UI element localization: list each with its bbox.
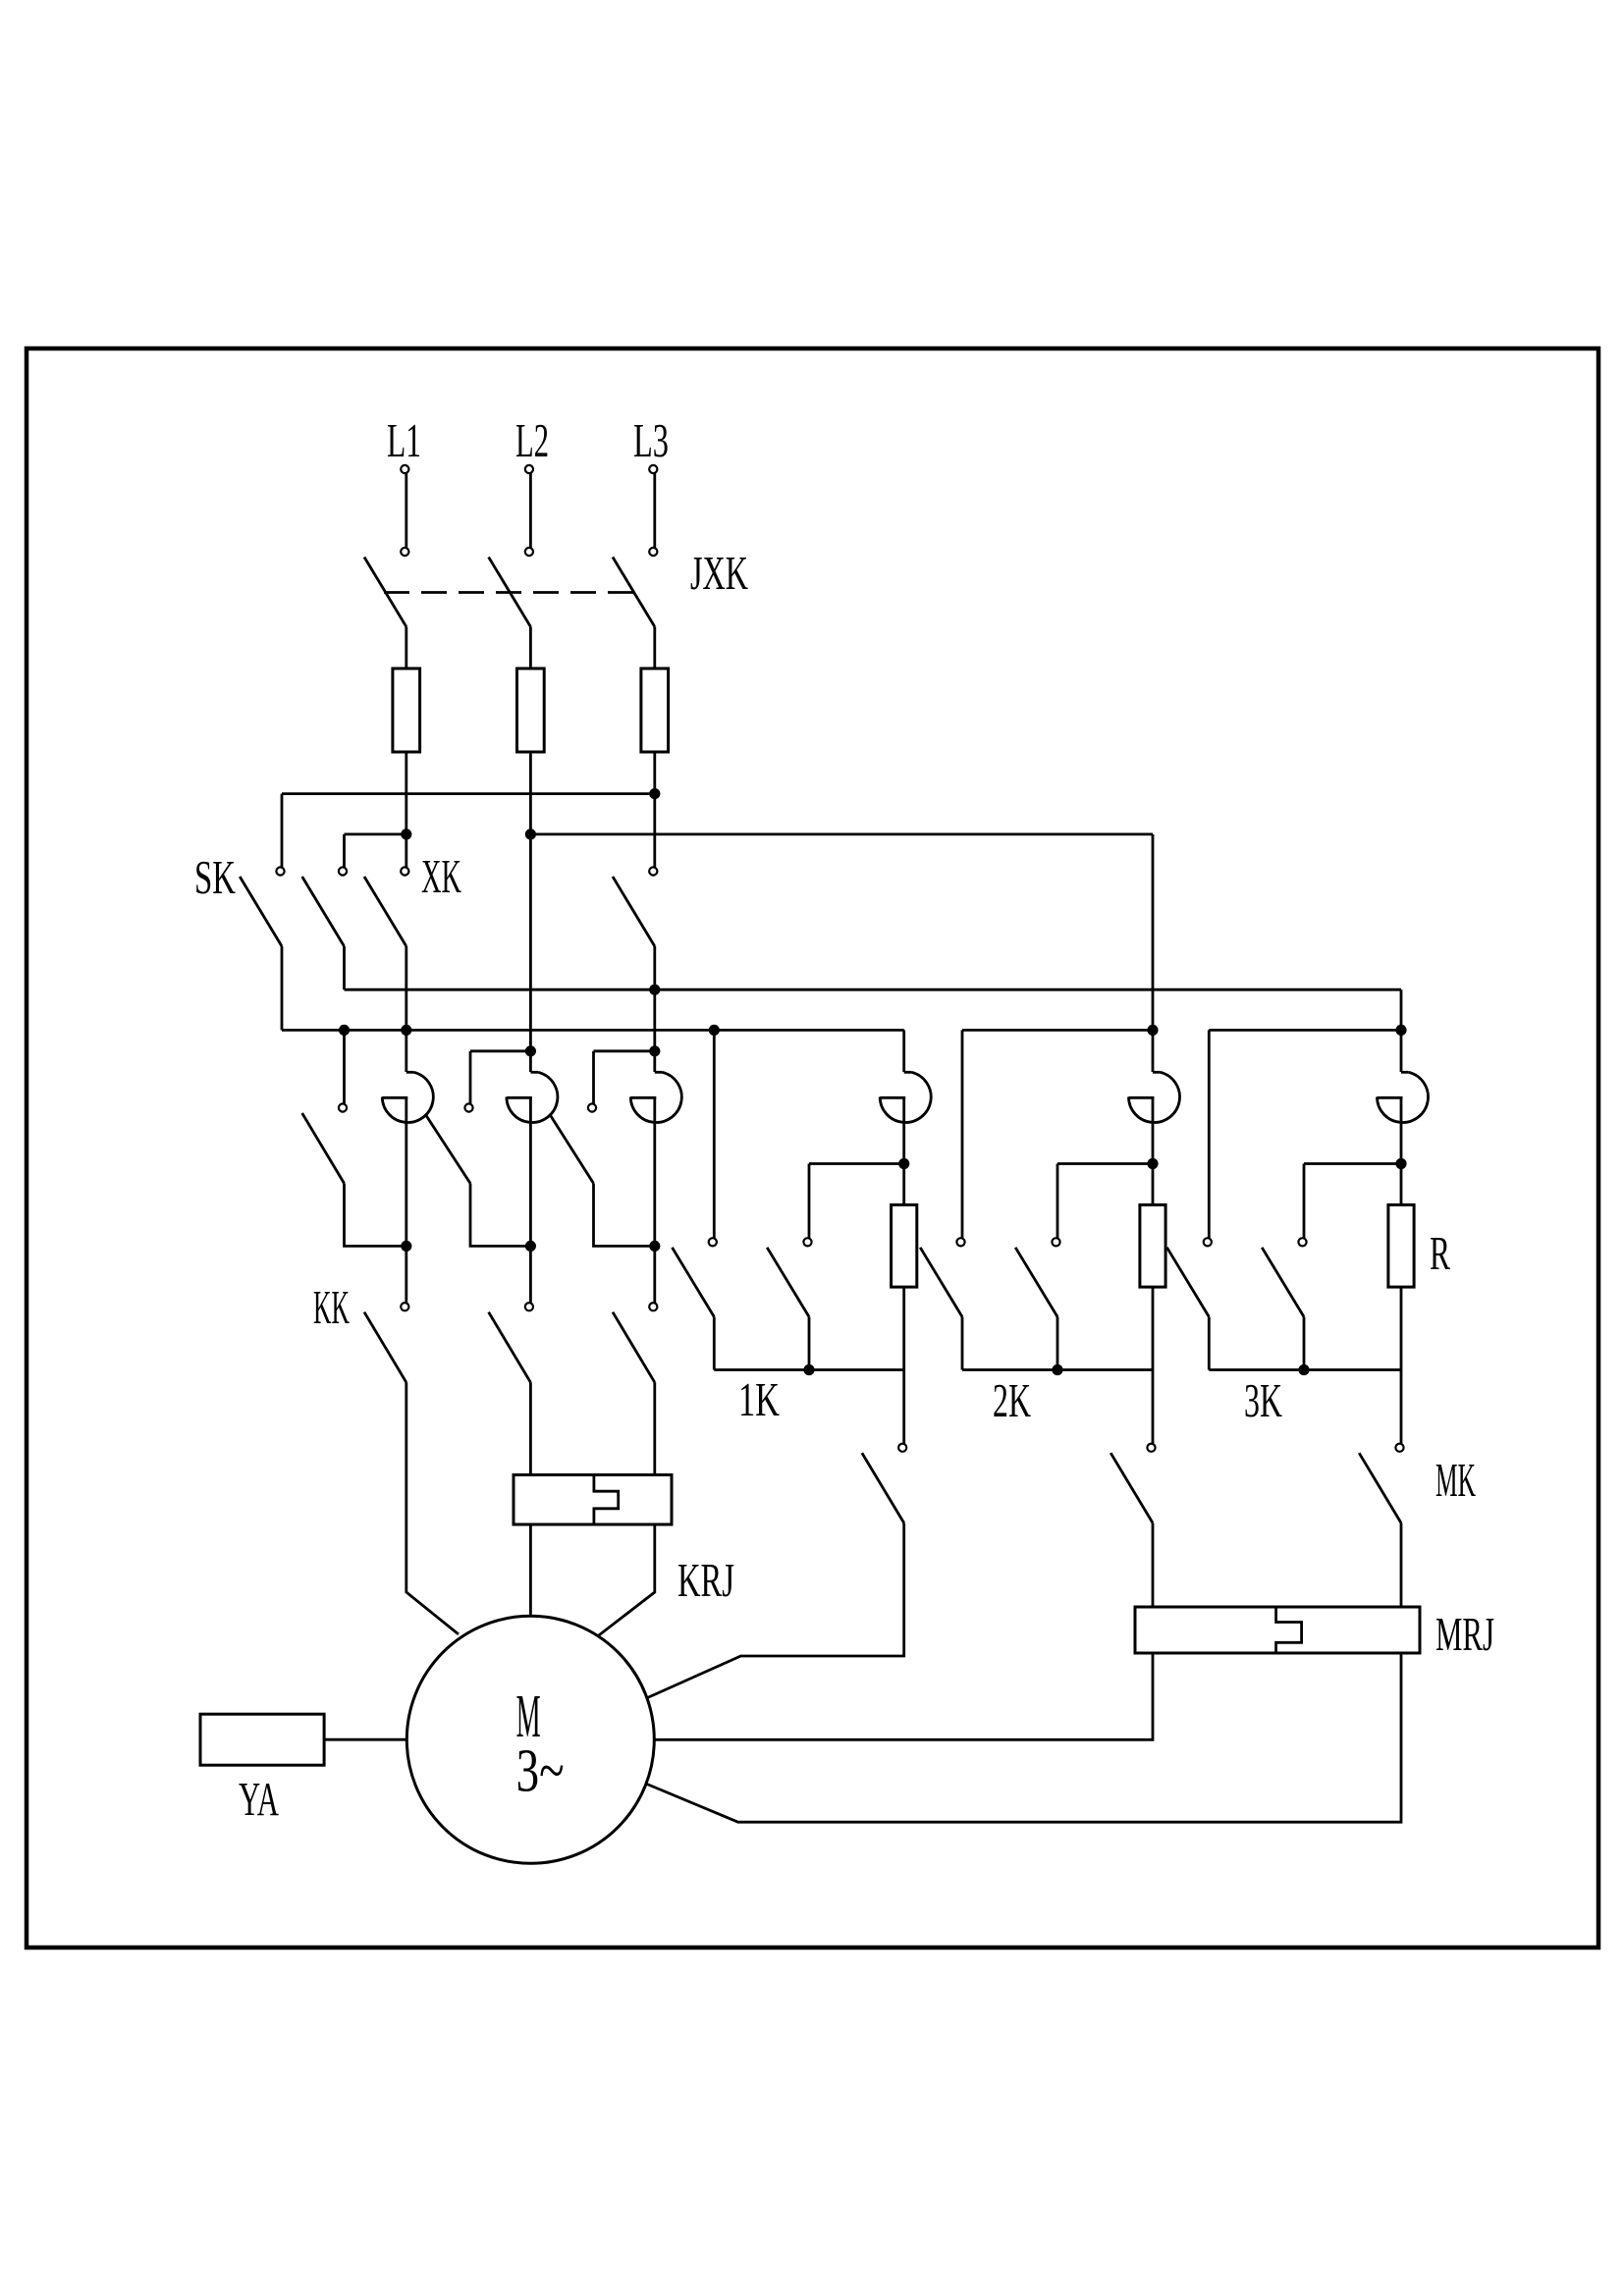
thermal relay heater KRJ bbox=[514, 1475, 672, 1525]
bus SK1 output (y=1049.4) bbox=[282, 1029, 904, 1032]
terminal L3 bbox=[649, 465, 657, 473]
fuse FU1 bbox=[393, 668, 420, 752]
wire winding5 tap to 2K middle bbox=[1057, 1162, 1153, 1165]
tap switch 1 blade bbox=[302, 1113, 345, 1184]
svg-text:1K: 1K bbox=[738, 1372, 780, 1426]
node 1K-bar bbox=[803, 1364, 814, 1375]
switch MK pole 1 blade bbox=[862, 1453, 904, 1522]
wire L2 to JXK bbox=[529, 473, 532, 548]
switch MK pole 3 contact bbox=[1395, 1444, 1403, 1452]
wire winding5 feed bbox=[1152, 834, 1155, 1072]
svg-text:YA: YA bbox=[239, 1772, 279, 1826]
wire SK1 top drop bbox=[281, 794, 284, 868]
wire 1K bottom bar bbox=[714, 1368, 903, 1371]
wire resistor4 down bbox=[902, 1287, 905, 1443]
wire tap switch 1 feed bbox=[343, 1030, 346, 1103]
node link1070-L2 bbox=[525, 1045, 536, 1056]
wire 2K left bottom bbox=[961, 1317, 964, 1370]
switch 2K middle blade bbox=[1015, 1248, 1057, 1317]
wire tap switch 2 feed bbox=[469, 1051, 472, 1104]
switch 3K left contact bbox=[1204, 1238, 1212, 1246]
wire KK3 to KRJ bbox=[653, 1382, 656, 1474]
switch XK pole 1 blade bbox=[364, 877, 406, 946]
wire 3K left pole feed bbox=[1208, 1030, 1211, 1238]
wire winding5 center bbox=[1152, 1097, 1155, 1204]
node tap2-L2 bbox=[525, 1241, 536, 1252]
svg-text:XK: XK bbox=[421, 849, 461, 903]
wire KK2 to KRJ bbox=[529, 1382, 532, 1474]
brake YA box bbox=[200, 1714, 324, 1765]
wire resistor R down bbox=[1400, 1287, 1403, 1443]
wire winding2 center bbox=[529, 1097, 532, 1303]
svg-text:3~: 3~ bbox=[516, 1737, 565, 1804]
tap switch 3 contact bbox=[588, 1103, 596, 1111]
winding W2 (autotransformer phase 2) bbox=[530, 1071, 538, 1074]
link L3 to tap switch 3 (y=1070.8) bbox=[594, 1049, 655, 1052]
svg-text:R: R bbox=[1430, 1226, 1450, 1280]
switch KK pole 3 blade bbox=[613, 1312, 655, 1383]
node 3Kfeed-w6 bbox=[1395, 1025, 1406, 1036]
wire 1K left bottom bbox=[713, 1317, 716, 1370]
link L2 to tap switch 2 (y=1070.8) bbox=[470, 1049, 530, 1052]
node tap1-L1 bbox=[401, 1241, 411, 1252]
wire winding3 center bbox=[653, 1097, 656, 1303]
wire fuse3 down L3 column bbox=[653, 752, 656, 867]
switch 1K left blade bbox=[673, 1248, 715, 1317]
wire SK2 top drop bbox=[343, 834, 346, 868]
switch JXK pole 2 contact bbox=[525, 548, 533, 556]
switch SK pole 2 blade bbox=[302, 877, 345, 946]
node link1070-L3 bbox=[649, 1045, 660, 1056]
wire 3K middle bottom bbox=[1303, 1317, 1306, 1370]
switch MK pole 2 blade bbox=[1110, 1453, 1153, 1522]
svg-text:2K: 2K bbox=[993, 1373, 1031, 1427]
wire XK1 bottom bbox=[405, 946, 407, 1072]
switch XK pole 2 contact bbox=[649, 867, 657, 875]
switch SK pole 1 blade bbox=[240, 877, 282, 946]
motor M circle bbox=[406, 1616, 654, 1863]
wire MRJ to motor bottom-right bbox=[647, 1653, 1401, 1822]
wire winding6 tap to 3K middle bbox=[1304, 1162, 1401, 1165]
node bus1049-B bbox=[339, 1025, 350, 1036]
tap switch 2 contact bbox=[464, 1103, 472, 1111]
wire 2K middle feed bbox=[1056, 1164, 1059, 1239]
switch 2K left blade bbox=[920, 1248, 962, 1317]
switch SK pole 2 contact bbox=[339, 867, 347, 875]
wire SK2 bottom bbox=[343, 946, 346, 989]
node link-L2 bbox=[525, 828, 536, 839]
wire winding4 center bbox=[902, 1097, 905, 1204]
wire JXK2 to fuse 2 bbox=[529, 627, 532, 669]
wire MRJ to motor right bbox=[654, 1653, 1153, 1739]
svg-text:3K: 3K bbox=[1244, 1373, 1282, 1427]
node tap-w4 bbox=[898, 1158, 909, 1169]
switch 2K middle contact bbox=[1052, 1238, 1059, 1246]
wire 3K feed segment (y=1049.4) bbox=[1209, 1029, 1401, 1032]
switch 2K left contact bbox=[956, 1238, 964, 1246]
node bus1008-L3 bbox=[649, 985, 660, 995]
winding W5 bbox=[1153, 1071, 1161, 1074]
wire winding4 tap to 1K middle bbox=[809, 1162, 904, 1165]
wire KK1 to motor bbox=[406, 1382, 459, 1634]
node 2Kfeed-w5 bbox=[1147, 1025, 1158, 1036]
link L2 to winding5 feed (y=849.9) bbox=[530, 833, 1153, 836]
switch MK pole 1 contact bbox=[898, 1444, 906, 1452]
wire 3K left bottom bbox=[1208, 1317, 1211, 1370]
wire KRJ to motor right-top bbox=[598, 1524, 655, 1636]
tap switch 1 contact bbox=[339, 1103, 347, 1111]
switch KK pole 2 contact bbox=[525, 1303, 533, 1310]
wire 2K feed segment (y=1049.4) bbox=[962, 1029, 1153, 1032]
node bus808-L3 bbox=[649, 788, 660, 799]
wire 3K bottom bar bbox=[1209, 1368, 1401, 1371]
wire 1K middle bottom bbox=[808, 1317, 811, 1370]
switch 3K middle contact bbox=[1298, 1238, 1306, 1246]
bus SK2 output (y=1008.2) bbox=[345, 988, 1402, 991]
node tap-w5 bbox=[1147, 1158, 1158, 1169]
svg-text:KRJ: KRJ bbox=[677, 1553, 734, 1607]
wire MK3 to MRJ bbox=[1400, 1523, 1403, 1608]
switch 3K middle blade bbox=[1262, 1248, 1304, 1317]
node bus1049-L1 bbox=[401, 1025, 411, 1036]
tap switch 2 blade (winding 1 wiper) bbox=[426, 1115, 470, 1184]
wire YA to motor bbox=[324, 1738, 406, 1741]
wire JXK3 to fuse 3 bbox=[653, 627, 656, 669]
thermal relay heater MRJ bbox=[1135, 1607, 1420, 1653]
node tap-w6 bbox=[1395, 1158, 1406, 1169]
switch SK pole 1 contact bbox=[276, 867, 284, 875]
switch JXK pole 1 blade bbox=[364, 558, 406, 627]
switch JXK pole 1 contact bbox=[401, 548, 408, 556]
node bus1049-1K bbox=[709, 1025, 720, 1036]
wire winding6 feed bbox=[1400, 989, 1403, 1072]
terminal L1 bbox=[401, 465, 408, 473]
wire tap switch 2 output to L2 bbox=[470, 1184, 530, 1247]
wire MK1 to motor bbox=[648, 1523, 904, 1698]
switch KK pole 2 blade bbox=[489, 1312, 531, 1383]
wire winding1 center bbox=[405, 1097, 407, 1303]
switch 3K left blade bbox=[1167, 1248, 1210, 1317]
resistor R4 bbox=[892, 1204, 917, 1287]
wire 2K middle bottom bbox=[1056, 1317, 1059, 1370]
wire MK2 to MRJ bbox=[1152, 1523, 1155, 1608]
wire XK2 bottom bbox=[653, 946, 656, 1072]
wire tap switch 3 feed bbox=[592, 1051, 595, 1104]
winding W3 (autotransformer phase 3) bbox=[655, 1071, 663, 1074]
winding W1 (autotransformer phase 1) bbox=[406, 1071, 414, 1074]
svg-text:L3: L3 bbox=[633, 413, 669, 467]
wire SK1 bottom bbox=[281, 946, 284, 1030]
svg-text:KK: KK bbox=[313, 1280, 350, 1334]
switch MK pole 2 contact bbox=[1147, 1444, 1155, 1452]
wire winding4 feed bbox=[902, 1030, 905, 1072]
resistor R bbox=[1388, 1204, 1414, 1287]
wire L3 to JXK bbox=[653, 473, 656, 548]
tap switch 3 blade (winding 2 wiper) bbox=[550, 1115, 593, 1184]
wire tap switch 1 output to L1 bbox=[345, 1184, 406, 1247]
switch JXK pole 3 blade bbox=[613, 558, 655, 627]
switch KK pole 3 contact bbox=[649, 1303, 657, 1310]
wire L1 to JXK bbox=[405, 473, 407, 548]
terminal L2 bbox=[525, 465, 533, 473]
switch 1K middle blade bbox=[767, 1248, 809, 1317]
svg-text:MRJ: MRJ bbox=[1435, 1607, 1494, 1661]
winding W4 bbox=[904, 1071, 912, 1074]
svg-text:MK: MK bbox=[1435, 1453, 1476, 1507]
svg-text:JXK: JXK bbox=[690, 546, 748, 600]
wire 3K middle feed bbox=[1303, 1164, 1306, 1239]
switch KK pole 1 contact bbox=[401, 1303, 408, 1310]
node 2K-bar bbox=[1052, 1364, 1062, 1375]
wire KRJ to motor top bbox=[529, 1524, 532, 1616]
fuse FU3 bbox=[641, 668, 669, 752]
node tap3-L3 bbox=[649, 1241, 660, 1252]
svg-text:L1: L1 bbox=[387, 413, 421, 467]
switch JXK pole 3 contact bbox=[649, 548, 657, 556]
switch 1K middle contact bbox=[803, 1238, 811, 1246]
wire 2K bottom bar bbox=[962, 1368, 1153, 1371]
switch XK pole 1 contact bbox=[401, 867, 408, 875]
switch JXK pole 2 blade bbox=[489, 558, 531, 627]
wire fuse1 down L1 column bbox=[405, 752, 407, 867]
wire 2K left pole feed bbox=[961, 1030, 964, 1238]
switch XK pole 2 blade bbox=[613, 877, 655, 946]
winding W6 bbox=[1401, 1071, 1409, 1074]
node 3K-bar bbox=[1298, 1364, 1309, 1375]
svg-text:L2: L2 bbox=[515, 413, 549, 467]
wire fuse2 down L2 column bbox=[529, 752, 532, 1072]
node link-L1 bbox=[401, 828, 411, 839]
svg-text:SK: SK bbox=[194, 850, 236, 904]
JXK mechanical link (dashed) bbox=[384, 591, 634, 594]
resistor R5 bbox=[1140, 1204, 1165, 1287]
wire winding6 center bbox=[1400, 1097, 1403, 1204]
wire 1K left pole feed bbox=[713, 1030, 716, 1238]
fuse FU2 bbox=[517, 668, 545, 752]
link L1 to SK pole2 (y=849.9) bbox=[345, 833, 406, 836]
wire tap switch 3 output to L3 bbox=[594, 1184, 655, 1247]
wire 1K middle feed bbox=[808, 1164, 811, 1239]
wire JXK1 to fuse 1 bbox=[405, 627, 407, 669]
switch MK pole 3 blade bbox=[1359, 1453, 1401, 1522]
wire resistor5 down bbox=[1152, 1287, 1155, 1443]
switch 1K left contact bbox=[709, 1238, 717, 1246]
switch KK pole 1 blade bbox=[364, 1312, 406, 1383]
bus L3 to SK pole1 (y=808.6) bbox=[282, 792, 655, 795]
